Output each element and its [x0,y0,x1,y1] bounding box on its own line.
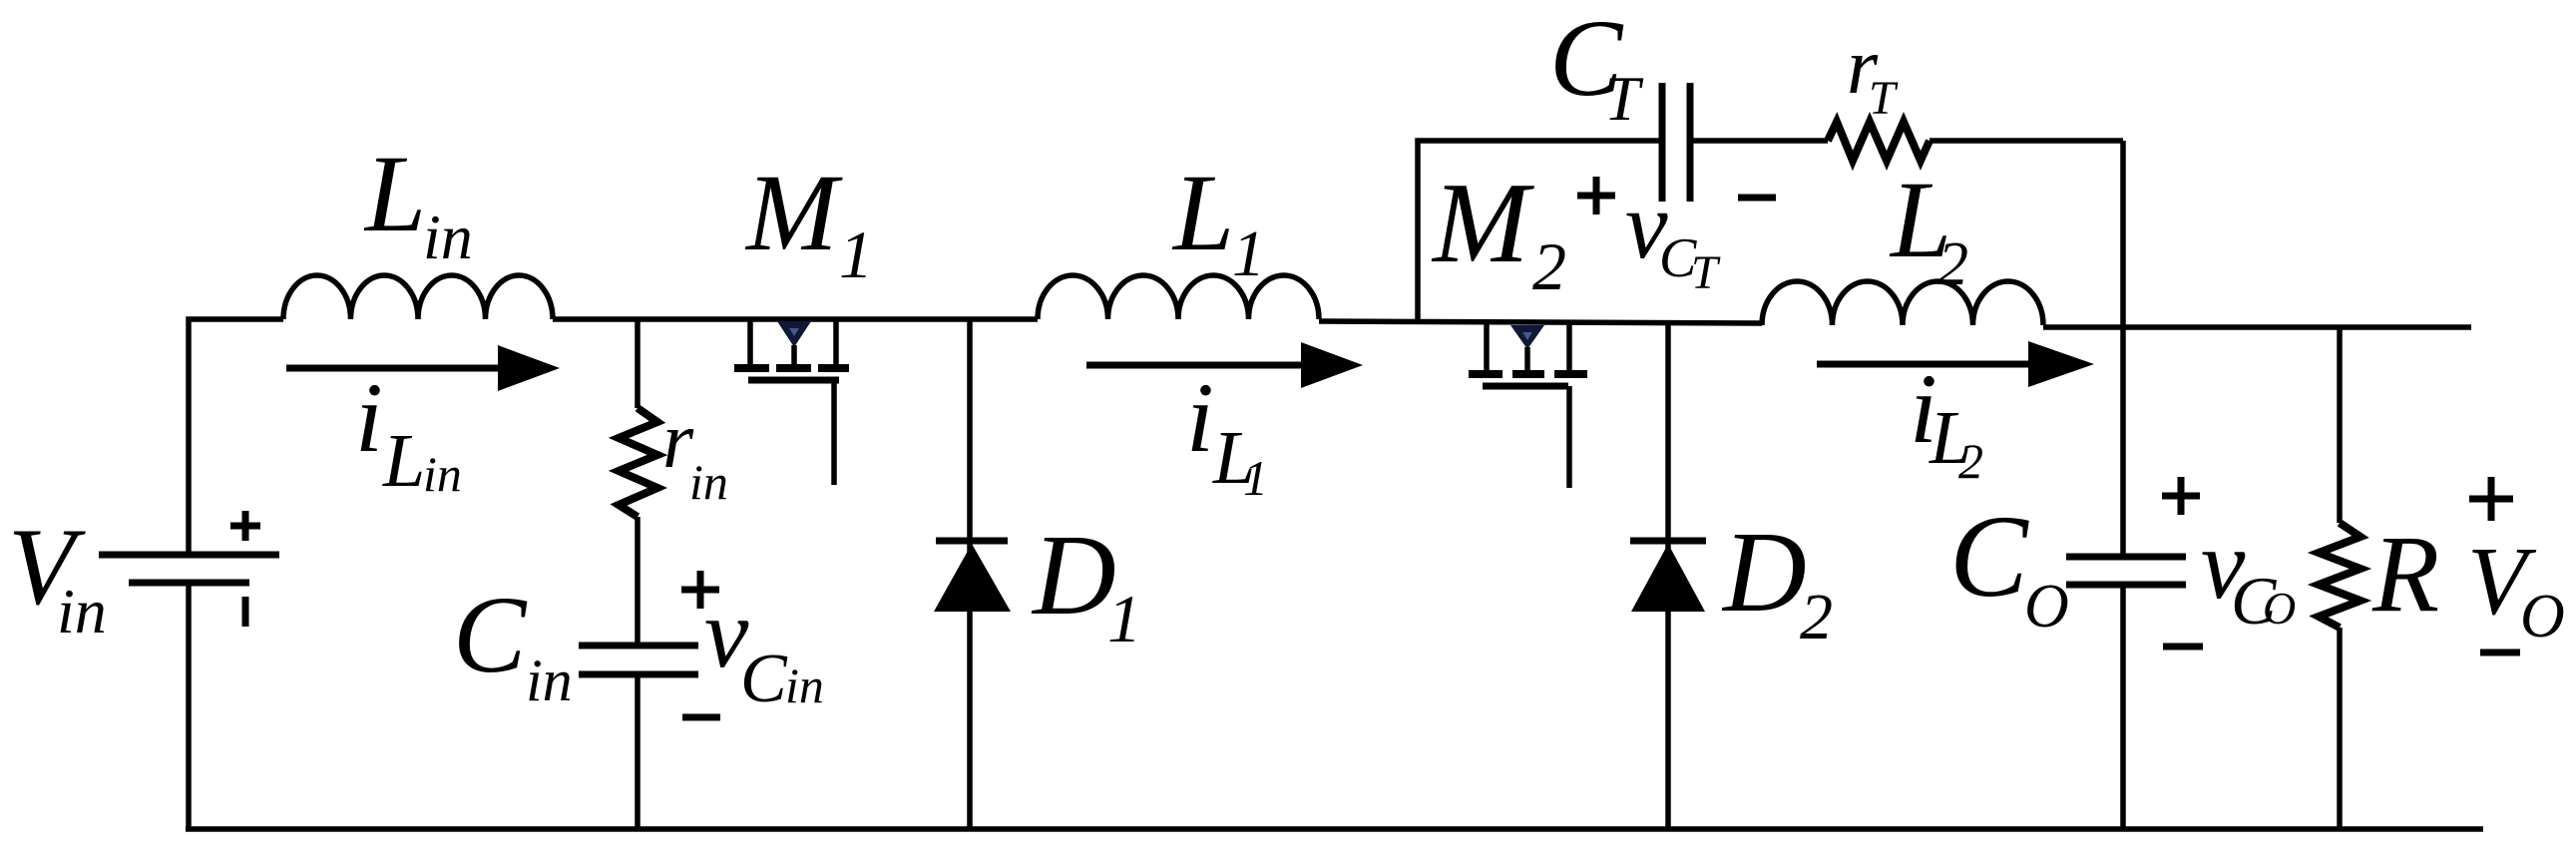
svg-text:M: M [1431,160,1534,287]
capacitor C_T right plate [1687,83,1694,202]
transistor M1 drain stub [747,319,753,364]
capacitor C_in top plate [579,643,698,649]
svg-text:2: 2 [1532,228,1566,304]
wire: rail Lin to L1 [553,316,1038,322]
battery V_in short plate [129,580,249,587]
svg-text:C: C [453,574,528,695]
capacitor C_T left plate [1659,83,1666,202]
svg-text:1: 1 [1232,217,1265,290]
label v_CT minus [1738,195,1776,202]
wire: C_in / r_in branch top [635,319,641,408]
diode D1 cathode bar [936,538,1008,545]
svg-text:T: T [1869,72,1899,125]
wire: top branch left vertical and top-left run [1418,141,1662,324]
capacitor C_O bottom plate [2066,582,2186,589]
svg-text:in: in [689,454,728,510]
transistor M1 body arrow [777,321,811,347]
svg-text:O: O [2520,583,2565,650]
inductor L2 [1762,281,2043,325]
current arrow i_Lin [286,365,504,372]
transistor M2 drain stub [1484,322,1490,370]
wire: D2 branch [1665,323,1671,829]
wire: C_in to bottom rail [635,674,641,829]
svg-text:1: 1 [1243,450,1268,506]
inductor L1 [1038,275,1319,319]
diode D2 cathode bar [1630,538,1706,545]
wire: bottom rail [186,826,2483,832]
label v_CT plus [1577,177,1615,214]
resistor R [2319,523,2361,628]
svg-text:in: in [57,576,107,646]
transistor M2 source stub [1566,322,1572,370]
svg-text:1: 1 [839,216,873,292]
svg-text:L: L [363,133,426,254]
transistor M1 gate bar [748,377,839,384]
svg-text:C: C [1949,491,2029,622]
transistor M2 gate bar [1483,383,1568,390]
label v_Cin plus [681,571,719,609]
wire: right rail after L2 [2043,324,2471,330]
diode D1 triangle [934,544,1011,612]
battery plus sign [230,511,260,541]
wire: top branch between C_T and r_T [1690,138,1828,144]
svg-text:C: C [740,641,788,717]
wire: battery bottom to bottom rail [186,583,192,829]
transistor M2 gate stub [1566,386,1572,488]
svg-text:in: in [423,202,473,272]
current arrow i_L1 [1086,362,1307,369]
svg-text:T: T [1691,246,1721,299]
current arrow i_L2 [1817,361,2034,368]
label v_CO plus [2162,477,2200,515]
battery V_in long plate [99,552,279,559]
wire: rail L1 to L2 [1319,321,1762,323]
transistor M1 gate stub [831,380,837,485]
svg-text:i: i [1186,362,1214,473]
inductor Lin [283,275,553,319]
resistor r_in [619,408,657,517]
diode D2 triangle [1631,544,1705,612]
svg-text:R: R [2371,513,2439,635]
svg-text:i: i [355,362,383,473]
label v_CO minus [2163,643,2203,650]
transistor M1 source stub [833,319,839,364]
svg-text:O: O [2024,573,2069,641]
svg-text:D: D [1031,512,1116,640]
transistor M2 body arrow [1510,325,1544,349]
svg-text:2: 2 [1937,230,1968,298]
svg-text:M: M [744,152,843,273]
battery minus tick [242,597,249,627]
svg-text:1: 1 [1107,581,1141,656]
wire: top branch r_T to right vertical [1930,138,2123,144]
svg-text:2: 2 [1800,581,1833,653]
svg-text:L: L [1171,152,1234,273]
transistor M1 arrow stem [791,345,797,366]
transistor M2 pads [1469,370,1587,378]
wire: R branch bottom [2337,628,2343,829]
svg-text:in: in [526,647,573,713]
wire: r_in to C_in [635,517,641,645]
svg-text:in: in [423,446,462,502]
capacitor C_O top plate [2066,554,2186,561]
capacitor C_in bottom plate [579,671,698,678]
transistor M1 pads [734,364,849,372]
svg-text:D: D [1721,509,1807,637]
svg-text:2: 2 [1958,433,1983,489]
wire: left vertical + top-left segment [189,319,283,555]
wire: C_O to bottom rail [2120,585,2126,829]
wire: right vertical down to C_O [2120,141,2126,557]
wire: D1 branch [967,319,973,829]
transistor M2 arrow stem [1524,347,1530,372]
wire: R branch top [2337,327,2343,523]
svg-text:T: T [1604,63,1644,134]
label V_O plus [2469,477,2513,521]
svg-text:L: L [382,419,425,503]
svg-text:in: in [785,657,824,713]
label V_O minus [2480,649,2520,656]
svg-text:O: O [2263,583,2296,634]
resistor r_T [1828,122,1930,161]
label v_Cin minus [682,714,720,721]
